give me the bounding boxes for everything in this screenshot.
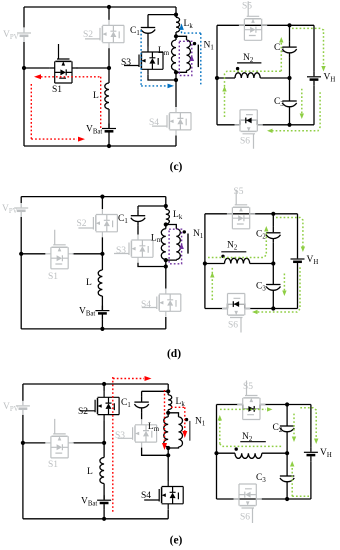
inductor Lm (e) [164,417,169,447]
green arrow down C2 (e) [292,437,296,443]
current path red top (c) [37,76,101,78]
inductor Lk (d) [166,209,170,224]
current path red main branch (e) [164,390,166,443]
wire VBat to bottom (c) [108,138,110,147]
wire right rail lower (e) [310,461,312,499]
wire S2 drain (c) [108,7,110,20]
svg-text:S3: S3 [121,58,131,68]
current path green left (d) [211,266,213,300]
wire S5 diode jog (e) [243,405,260,409]
wire C2 to mid (e) [286,436,288,453]
transistor S4 (c) [152,107,191,135]
wire bottom right (c-right) [257,124,314,126]
capacitor C3 (d) [266,279,280,295]
node Lk-N1 (e) [166,411,170,415]
transistor S4 (d) [142,289,181,317]
wire left rail lower (c-left) [23,42,25,146]
wire mid right (c-right) [260,77,289,79]
svg-text:S1: S1 [52,85,62,95]
polarity dot N2 (d) [221,255,224,258]
winding N1 (d) [176,229,180,260]
wire S1 row right (d) [73,253,103,255]
winding N2 (c) [235,73,260,78]
wire Lk to Lm (e) [167,410,169,417]
battery V_H (e) [304,447,318,461]
wire L to VBat (d) [101,296,103,310]
svg-text:L: L [86,278,92,288]
inductor L (e) [100,458,104,484]
current path green top right (c) [292,28,324,66]
current path green bottom (d) [254,267,300,312]
green arrow right S5 (e) [267,407,273,411]
current path red top (e) [113,378,144,380]
capacitor C2 (d) [266,227,280,243]
wire VBat to bottom (d) [101,320,103,329]
wire S4 to bottom (d) [165,317,167,329]
green arrow up C2 (c) [279,37,283,43]
wire top right (e-right) [260,404,311,406]
svg-text:S1: S1 [48,460,58,470]
purple arrow up (d) [179,243,184,249]
node N2 left (c) [215,76,219,80]
svg-text:S6: S6 [228,321,238,331]
wire bottom left (d-right) [205,308,228,310]
node rail-S1 (e) [21,441,25,445]
transistor S4 (e) [144,481,183,509]
green arrow down VH (d) [301,247,305,253]
battery V_Bat (c) [102,124,116,138]
terminal bar N1 (e) [189,421,191,441]
node rail-S1 (d) [19,252,23,256]
wire S6 diode jog (c) [240,120,257,124]
wire S1 row left (c) [24,67,49,69]
winding N1 (c) [187,40,191,70]
wire to C3 (c) [289,78,291,95]
polarity dot N1 (c) [193,42,196,45]
wire to C1 (c) [147,15,149,22]
blue arrow right (c) [168,84,175,89]
transistor S3 (e) [118,419,157,447]
svg-text:S4: S4 [141,300,151,310]
battery V_Bat (d) [95,306,109,320]
wire C1 to S3 (c) [147,38,149,47]
node C2-C3 (d) [271,261,275,265]
capacitor C3 (c) [282,95,296,111]
current path red bottom (c) [31,138,77,140]
wire C1 to S3 (e) [141,412,143,419]
blue arrow up Lk (c) [179,23,184,30]
wire left rail (e-right) [216,405,218,500]
current path blue right (c) [200,33,202,84]
wire S1 row left (d) [21,253,45,255]
svg-text:S6: S6 [240,137,250,147]
wire L to VBat (c) [108,109,110,128]
wire top left (e-right) [217,404,243,406]
node C1 tap (d) [164,204,168,208]
current path blue to Lk (c) [181,30,183,33]
current path green left (e) [219,419,221,444]
winding N1 top (d) [166,225,177,229]
battery V_PV (e) [16,401,30,415]
transistor S6 (c) [235,110,263,149]
wire left rail (c-right) [216,25,218,125]
red arrow left (c) [34,74,41,79]
body diode S6 black (d) [234,301,239,307]
winding N2 (e) [235,453,262,458]
wire left rail (d-right) [204,214,206,309]
terminal bar N2 (c) [237,62,261,64]
current path green to C2 (c) [280,41,282,71]
green arrow left bottom (d) [252,310,258,314]
current path blue bottom (c) [141,85,167,87]
node N2 left (e) [214,451,218,455]
battery V_PV (d) [14,203,28,217]
terminal bar N1 (c) [197,45,199,68]
winding N1 top (c) [176,36,187,40]
svg-text:S6: S6 [240,513,250,523]
capacitor C1 (c) [141,22,155,38]
node S1-L (e) [102,441,106,445]
wire left rail lower (d) [20,217,22,329]
terminal bar N1 (d) [187,234,189,254]
current path green top (e) [220,408,266,410]
node S1-L (c) [107,66,111,70]
wire to L (e) [103,443,105,458]
node C2 top (c) [287,23,291,27]
wire top (e-left) [23,383,168,385]
wire right rail upper (d) [297,214,299,254]
wire right rail upper (e) [310,405,312,448]
wire S1 row right (e) [73,442,104,444]
wire left rail upper (c-left) [23,7,25,28]
capacitor C1 (e) [134,396,148,412]
wire left rail upper (e) [22,384,24,401]
current path red N1 right (e) [184,407,186,431]
wire left rail lower (e) [22,415,24,519]
wire right rail lower (c) [313,86,315,125]
transistor S1 (d) [45,230,73,269]
wire C1 tap (d) [138,205,166,207]
wire to C2 (e) [286,405,288,421]
current path green top right (e) [300,408,316,438]
wire to C1 (d) [137,206,139,210]
wire to Lk (e) [167,384,169,395]
wire C3 to bottom (e) [286,486,288,499]
wire C2 to mid (c) [289,57,291,78]
node N1 bottom (c) [174,70,178,74]
svg-text:S4: S4 [141,491,151,501]
wire mid right (d-right) [250,263,274,265]
wire bottom (e-left) [23,518,168,520]
svg-text:(d): (d) [167,348,181,360]
winding N1 bottom (e) [168,447,178,448]
node C1 tap (e) [166,389,170,393]
wire VBat to bottom (e) [103,509,105,519]
red arrow down main (e) [162,443,167,450]
current path green C2 right (e) [293,414,295,436]
wire C1 tap (e) [142,390,169,392]
node C2-C3 (c) [287,76,291,80]
current path green bottom right (e) [292,495,309,497]
wire C1 to S3 (d) [137,226,139,235]
node S2 top (d) [100,195,104,199]
polarity dot N1 (d) [183,230,186,233]
wire to C2 (c) [289,25,291,41]
node C2 top (e) [285,402,289,406]
current path purple loop (c) [179,41,192,75]
wire C2 to mid (d) [272,243,274,264]
node C1 tap (c) [174,13,178,17]
current path green C3-VH (c) [301,89,303,114]
node VBat-bottom (c) [107,144,111,148]
wire mid left (c-right) [217,77,235,79]
wire Lk to Lm (d) [165,224,167,229]
transistor S6 (d) [222,294,250,333]
current path green left-top (c) [225,71,282,117]
wire S2 drain (d) [101,197,103,209]
current path red Lk-N1 (e) [171,406,185,408]
transistor S5 (c) [239,1,267,40]
current path green mid (e) [220,444,282,447]
wire C1 tap (c) [148,14,176,16]
wire S2 source (e) [103,420,105,443]
node S2 top (e) [102,382,106,386]
battery V_PV (c) [17,28,31,42]
wire bottom left (c-right) [217,124,240,126]
wire S6 diode jog (d) [228,304,245,308]
svg-text:S5: S5 [243,382,253,392]
current path blue top (c) [182,32,201,34]
svg-text:S5: S5 [242,2,252,12]
wire to C2 (d) [272,214,274,227]
transistor S3 (d) [114,235,153,263]
red arrow right top (e) [145,376,152,381]
node S3 tap (d) [164,264,168,268]
wire top (c-left) [24,6,176,8]
svg-text:S1: S1 [48,272,58,282]
wire bottom (c-left) [24,145,176,147]
transistor S2 (e) [80,392,119,420]
current path red left (c) [30,84,32,139]
svg-text:L: L [87,467,93,477]
wire mid right (e-right) [262,452,287,454]
wire bottom right (d-right) [245,308,298,310]
wire to C3 (e) [286,453,288,470]
wire S2 source (c) [108,48,110,68]
battery V_H (c) [307,72,321,86]
body diode S6 black (c) [246,118,251,124]
green arrow up C3 (e) [290,461,294,467]
svg-text:S2: S2 [78,407,88,417]
wire Lm to S4 (d) [165,260,167,289]
current path green bottom right (c) [270,92,320,131]
green arrow up C2 (d) [264,226,268,232]
svg-text:S5: S5 [234,187,244,197]
transistor S5 (d) [227,190,255,229]
wire to Lk (c) [175,7,177,17]
wire top (c-right) [217,24,314,26]
purple arrow up (c) [190,55,195,61]
red arrow right (c) [78,137,85,142]
wire left rail upper (d) [20,197,22,203]
inductor Lm (c) [172,40,177,70]
green arrow left (c) [267,129,273,133]
wire Lm to S4 (e) [167,447,169,481]
svg-text:(e): (e) [170,535,183,547]
winding N1 bottom (d) [166,259,177,262]
capacitor C3 (e) [280,470,294,486]
wire mid left (e-right) [217,452,236,454]
node C3 bottom (d) [271,306,275,310]
transistor S2 (c) [85,20,124,48]
current path green C3 right (d) [283,274,285,292]
green arrow down VH (e) [314,439,318,445]
current path purple loop (d) [169,229,182,264]
node S3 tap (c) [174,78,178,82]
node S1-L (d) [100,252,104,256]
wire to Lk (d) [165,197,167,210]
svg-text:S2: S2 [77,219,87,229]
polarity dot N1 (e) [185,418,188,421]
wire S4 to bottom (e) [167,510,169,519]
svg-text:S4: S4 [149,118,159,128]
transistor S3 (c) [124,47,163,75]
wire to L (d) [101,254,103,270]
node S2-top (c) [107,5,111,9]
node rail-S1 (c) [22,66,26,70]
wire S3 source to node (e) [142,448,169,456]
node VBat bottom (e) [102,517,106,521]
node N1 bottom (d) [164,258,168,262]
winding N1 top (e) [168,413,178,417]
transistor S6 (e) [234,484,262,523]
body diode S5 black (e) [248,406,253,412]
battery V_H (d) [291,254,305,268]
polarity dot N2 (e) [235,447,238,450]
capacitor C1 (d) [131,210,145,226]
capacitor C2 (e) [280,420,294,436]
green arrow down C3 (c) [300,114,304,120]
wire S3 source to node (d) [138,263,166,267]
red arrow down N1 (e) [182,431,187,438]
inductor L (c) [105,83,109,109]
current path green top right (d) [276,218,303,248]
transistor S1 (c) [49,44,77,83]
node VBat bottom (d) [100,327,104,331]
inductor L (d) [98,270,102,296]
wire to C3 (d) [272,264,274,279]
inductor Lk (c) [176,17,180,32]
current path red left loop (e) [112,377,114,513]
wire S2 drain (e) [103,384,105,392]
wire C3 to bottom (d) [272,295,274,309]
terminal bar N2 (d) [221,251,246,253]
transistor S2 (d) [78,209,117,237]
current path green C3 right (e) [291,466,293,496]
green arrow down VH (c) [321,66,325,72]
node C2-C3 (e) [285,451,289,455]
wire Lm to S4 (c) [175,70,177,107]
node Lk-N1 (d) [164,222,168,226]
current path blue C1-S3 (c) [140,30,142,86]
wire S2 source (d) [101,237,103,254]
winding N1 (e) [179,417,183,447]
node C2 top (d) [271,212,275,216]
wire Lk to Lm (c) [175,32,177,40]
node S3 tap (e) [166,453,170,457]
green arrow up left (e) [218,415,222,421]
wire to C1 (e) [141,391,143,396]
terminal bar N2 (e) [240,441,265,443]
wire S1 row left (e) [23,442,46,444]
green arrow down C3 (d) [282,291,286,297]
wire bottom (d-left) [21,328,166,330]
node C3 bottom (c) [287,123,291,127]
svg-text:S3: S3 [116,246,126,256]
wire to L (c) [108,68,110,83]
wire L to VBat (e) [103,484,105,500]
wire right rail upper (c) [313,25,315,72]
winding N1 bottom (c) [176,70,187,72]
svg-text:(c): (c) [170,161,183,173]
wire C3 to bottom (c) [289,111,291,125]
svg-text:S3: S3 [115,431,125,441]
node C3 bottom (e) [285,497,289,501]
svg-text:S2: S2 [83,30,93,40]
inductor Lm (d) [161,229,166,260]
node N2 left (d) [203,261,207,265]
green arrow up left (c) [222,86,226,92]
wire mid left (d-right) [205,263,225,265]
capacitor C2 (c) [282,41,296,57]
wire S3 source to node (c) [148,75,176,80]
transistor S5 (e) [237,381,265,420]
battery V_Bat (e) [97,495,111,509]
transistor S1 (e) [45,419,73,458]
current path green above N2 (d) [208,230,266,258]
winding N2 (d) [225,258,250,263]
wire right rail lower (d) [297,268,299,309]
current path red right (c) [100,77,102,129]
svg-text:L: L [93,91,99,101]
wire bottom (e-right) [217,498,311,500]
node Lk-N1 (c) [174,34,178,38]
polarity dot N2 (c) [236,67,239,70]
wire S1 row right (c) [77,67,110,69]
wire top (d-right) [205,213,298,215]
inductor Lk (e) [168,395,172,410]
wire top (d-left) [21,196,166,198]
green arrow up left (d) [210,272,214,278]
node N1 bottom (e) [166,446,170,450]
wire S4 to bottom (c) [175,136,177,147]
